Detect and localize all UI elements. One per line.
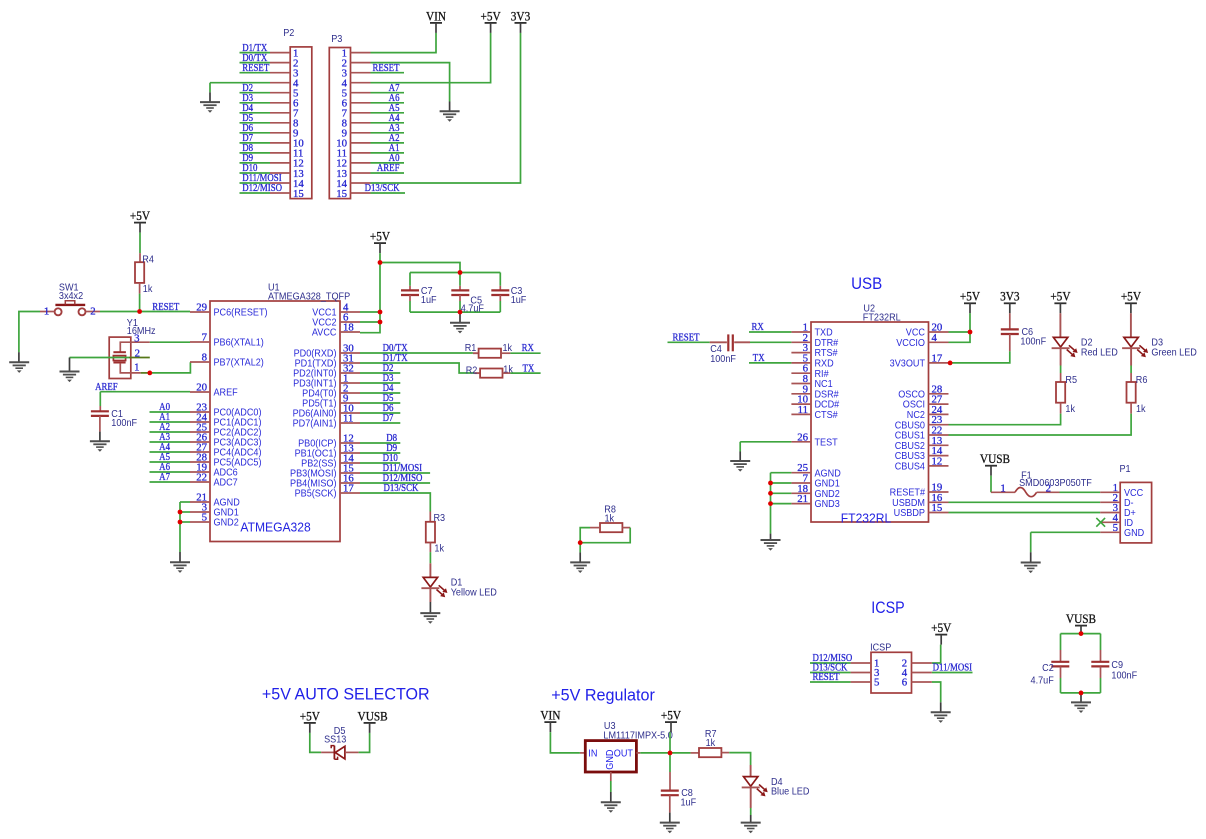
wire net D1/TX to P2.1 (240, 52, 271, 54)
wire net D12/MISO ICSP (810, 662, 851, 664)
svg-text:P3: P3 (331, 34, 342, 46)
wire XTAL1 to PB6 (150, 341, 190, 343)
pin stub C9 top (1100, 650, 1102, 662)
power 3V3 at C6 (1000, 289, 1020, 313)
svg-text:AREF: AREF (377, 162, 400, 174)
wire net A7 (150, 481, 191, 483)
wire AREF down to C1 (99, 392, 101, 406)
wire net D4 to P2.7 (240, 112, 271, 114)
wire D2 to R5 (1060, 366, 1062, 374)
ground stem TEST (739, 452, 741, 462)
svg-text:4: 4 (932, 332, 938, 344)
wire R8 left down (580, 528, 590, 543)
svg-text:1k: 1k (1065, 404, 1075, 416)
ground stem P1 (1030, 552, 1032, 562)
wire R7 to D4 (729, 753, 750, 765)
wire to C7 top (409, 273, 411, 286)
pin stub D1 anode (429, 563, 431, 577)
pin stub R3 top (429, 512, 431, 522)
svg-text:RESET: RESET (673, 332, 700, 344)
wire to C5 top (459, 273, 461, 286)
power 3V3 top (511, 9, 531, 33)
junction RESET node (137, 309, 142, 314)
svg-text:D12/MISO: D12/MISO (242, 182, 282, 194)
svg-text:P2: P2 (283, 28, 294, 40)
wire +5V to VCC (949, 331, 971, 333)
svg-text:18: 18 (343, 322, 354, 334)
wire net A6 (150, 471, 191, 473)
wire net A1 at P3.11 (371, 152, 405, 154)
svg-text:100nF: 100nF (710, 354, 736, 366)
svg-text:1: 1 (44, 305, 49, 317)
svg-text:RESET: RESET (242, 62, 269, 74)
wire net D10 to P2.13 (240, 172, 271, 174)
switch SW1 (40, 282, 100, 317)
svg-text:VIN: VIN (540, 708, 561, 723)
junction U2 GND1 (768, 481, 773, 486)
LED D3 Green (1122, 337, 1197, 358)
svg-text:1k: 1k (503, 364, 513, 376)
junction XTAL2 (147, 371, 152, 376)
svg-text:VCCIO: VCCIO (896, 338, 925, 350)
power VIN top (426, 9, 447, 33)
pin stub D4 cathode (750, 787, 752, 808)
ground symbol TEST (730, 461, 750, 472)
svg-text:29: 29 (196, 302, 207, 314)
pin stub C5 bottom (459, 295, 461, 301)
svg-text:3V3OUT: 3V3OUT (890, 358, 926, 370)
wire net D0/TX to P2.2 (240, 62, 271, 64)
svg-text:R5: R5 (1065, 375, 1077, 387)
power VIN regulator (540, 708, 561, 732)
pin stub D2 cathode (1060, 348, 1062, 365)
power +5V regulator out (661, 708, 682, 732)
wire net D11/MOSI to P2.14 (240, 182, 271, 184)
wire cap top rail (410, 272, 500, 274)
svg-text:TX: TX (753, 352, 765, 364)
ground symbol P2.4 (200, 102, 220, 113)
wire net D13/SCK at P3.15 (371, 192, 406, 194)
svg-text:VUSB: VUSB (1066, 612, 1096, 627)
resistor R7 (699, 729, 721, 758)
ground symbol D4 (741, 823, 761, 834)
ground stem Y1 (69, 358, 71, 372)
wire net D7 (360, 422, 400, 424)
pin stub R2 left (474, 372, 480, 374)
power +5V at ICSP (931, 621, 952, 645)
svg-text:R1: R1 (465, 343, 477, 355)
wire P2.4 to GND (210, 82, 270, 84)
svg-text:+5V AUTO SELECTOR: +5V AUTO SELECTOR (262, 684, 430, 704)
svg-text:FT232RL: FT232RL (863, 312, 901, 324)
wire to R7 (670, 752, 691, 754)
wire XTAL2 to PB7 (150, 362, 191, 373)
pin stub C6 bottom (1009, 334, 1011, 351)
wire net A5 (150, 461, 191, 463)
wire R8 right loop (580, 528, 630, 543)
wire net D3 (360, 382, 400, 384)
wire GND2 U2 (771, 492, 792, 494)
svg-text:PB6(XTAL1): PB6(XTAL1) (214, 337, 264, 349)
svg-text:RESET: RESET (372, 62, 399, 74)
capacitor C7 (401, 286, 437, 307)
wire net D10 (360, 462, 400, 464)
LED D4 Blue (742, 776, 810, 797)
ground stem caps (459, 312, 461, 323)
wire GND2 (180, 521, 190, 523)
svg-text:15: 15 (293, 188, 304, 200)
pin stub C8 top (669, 772, 671, 791)
wire P3.2 to GND (371, 63, 450, 102)
svg-text:2: 2 (135, 348, 140, 360)
wire AREF (100, 391, 190, 393)
wire +5V to VCCIO (949, 313, 971, 342)
svg-text:USBDP: USBDP (894, 508, 925, 520)
power +5V at R4 (130, 209, 151, 233)
wire net D13/SCK ICSP (810, 672, 851, 674)
pin stub C7 top (409, 286, 411, 291)
svg-text:CBUS4: CBUS4 (895, 461, 926, 473)
wire RESET to U1 (100, 311, 190, 313)
wire P3.1 to VIN (371, 33, 437, 53)
wire D3 to R6 (1130, 366, 1132, 374)
svg-text:12: 12 (932, 455, 943, 467)
svg-text:ATMEGA328: ATMEGA328 (240, 520, 310, 534)
ground stem D1 (429, 602, 431, 613)
wire P1 GND down (1030, 532, 1032, 552)
svg-text:5: 5 (202, 512, 207, 524)
svg-text:RX: RX (522, 342, 534, 354)
resistor R6 (1127, 375, 1148, 416)
wire RX to TXD (749, 331, 791, 333)
svg-text:D7: D7 (383, 412, 394, 424)
wire AGND (180, 501, 190, 503)
svg-text:IN: IN (588, 748, 597, 760)
wire R3 to D1 (429, 552, 431, 563)
connector P3 (329, 34, 370, 200)
wire net A3 (150, 441, 191, 443)
junction +5V rail top (378, 260, 383, 265)
ground stem U3 (610, 792, 612, 802)
wire net D4 (360, 392, 400, 394)
wire net D6 (360, 412, 400, 414)
ground stem SW1 (18, 352, 20, 362)
IC U1 ATMEGA328_TQFP (190, 282, 360, 541)
svg-text:22: 22 (196, 472, 207, 484)
ground stem U1 GND (179, 552, 181, 562)
svg-text:TX: TX (523, 363, 535, 375)
svg-text:1: 1 (1000, 482, 1005, 494)
svg-text:Blue LED: Blue LED (771, 786, 809, 798)
pin stub C2 top (1060, 650, 1062, 662)
svg-text:AVCC: AVCC (312, 327, 337, 339)
svg-text:ICSP: ICSP (871, 599, 904, 617)
wire to C2 top (1060, 634, 1062, 650)
wire net D12/MISO (360, 482, 430, 484)
svg-text:+5V: +5V (661, 708, 682, 723)
svg-text:100nF: 100nF (1020, 336, 1046, 348)
svg-text:TEST: TEST (815, 437, 838, 449)
wire +5V to cap rail (380, 263, 460, 273)
wire VIN to U3 (550, 732, 580, 753)
junction GND1 (178, 510, 183, 515)
svg-text:AREF: AREF (214, 387, 238, 399)
wire net D9 to P2.12 (240, 162, 271, 164)
ground stem C1 (99, 432, 101, 442)
svg-text:SS13: SS13 (324, 734, 346, 746)
wire C6 to 3V3OUT (950, 351, 1010, 363)
svg-text:Yellow LED: Yellow LED (451, 587, 497, 599)
svg-text:R4: R4 (142, 254, 154, 266)
capacitor C1 (91, 409, 137, 429)
wire C9 bottom (1100, 678, 1102, 693)
svg-text:OUT: OUT (614, 748, 633, 760)
wire Y1 pin2 to ground (70, 357, 130, 359)
junction VCC2 (378, 320, 383, 325)
ground stem C8 (669, 813, 671, 823)
resistor R2 (466, 364, 513, 377)
svg-text:GND: GND (605, 749, 617, 769)
svg-text:+5V: +5V (130, 209, 151, 224)
wire net D8 to P2.11 (240, 152, 271, 154)
wire to C9 top (1100, 634, 1102, 650)
junction cap gnd rail (458, 310, 463, 315)
wire net A0 (150, 411, 191, 413)
wire C2 C9 bottom rail (1061, 692, 1101, 694)
IC U2 FT232RL (791, 303, 948, 525)
wire +5V rail down to AVCC (360, 253, 380, 333)
svg-text:R2: R2 (466, 365, 478, 377)
svg-text:1k: 1k (1136, 404, 1146, 416)
ground symbol C1 (90, 441, 110, 452)
svg-text:C2: C2 (1042, 663, 1054, 675)
svg-text:VIN: VIN (426, 9, 447, 24)
wire net D3 to P2.6 (240, 102, 271, 104)
junction VUSB rail (1079, 631, 1084, 636)
ground symbol ICSP (931, 712, 951, 723)
junction U2 GND3 (768, 501, 773, 506)
ground symbol Y1 (60, 372, 80, 383)
pin stub R1 left (473, 352, 479, 354)
junction +5V out (668, 751, 673, 756)
junction GND2 (178, 520, 183, 525)
wire net D5 (360, 402, 400, 404)
svg-text:P1: P1 (1120, 464, 1131, 476)
resistor R5 (1056, 375, 1077, 416)
wire C3 to gnd rail (499, 301, 501, 312)
svg-text:PD7(AIN1): PD7(AIN1) (293, 418, 337, 430)
pin stub C5 top (459, 286, 461, 291)
svg-text:R6: R6 (1136, 375, 1148, 387)
svg-text:PB5(SCK): PB5(SCK) (295, 488, 337, 500)
wire net A1 (150, 421, 191, 423)
power +5V top (481, 9, 502, 33)
wire USBDM to P1 (949, 501, 1101, 503)
svg-text:USB: USB (851, 274, 882, 293)
ground stem U2 gnd (770, 534, 772, 540)
wire net D2 (360, 372, 400, 374)
wire P3.14 to 3V3 (371, 33, 521, 183)
wire +5V to D5 cathode (310, 733, 321, 753)
wire net A3 at P3.9 (371, 132, 405, 134)
junction R8 gnd (578, 540, 583, 545)
power +5V at D2 (1050, 289, 1071, 313)
svg-text:20: 20 (196, 382, 207, 394)
ground symbol R8 (570, 562, 590, 573)
wire TEST to gnd (740, 441, 791, 443)
wire F1 to P1 VCC (1060, 491, 1101, 493)
svg-text:RESET: RESET (813, 671, 840, 683)
svg-text:7: 7 (202, 332, 208, 344)
wire net D12/MISO to P2.15 (240, 192, 271, 194)
wire D5 anode to VUSB (359, 733, 370, 753)
pin stub R6 top (1130, 373, 1132, 382)
pin stub R6 bottom (1130, 403, 1132, 414)
svg-text:+5V: +5V (370, 229, 391, 244)
wire AGND (771, 472, 792, 474)
pin stub D2 anode (1059, 313, 1061, 337)
svg-text:5: 5 (1113, 522, 1118, 534)
wire net RESET to P2.3 (240, 72, 271, 74)
pin stub C1 top (99, 406, 101, 411)
wire VUSB to F1 (990, 476, 992, 493)
wire net D6 to P2.9 (240, 132, 271, 134)
pin stub C2 bottom (1060, 666, 1062, 678)
wire GND bus down (179, 502, 181, 552)
ground symbol C2 C9 (1071, 702, 1091, 713)
wire net RESET at P3.3 (371, 72, 405, 74)
pin stub R3 bottom (429, 543, 431, 553)
svg-text:D13/SCK: D13/SCK (384, 482, 420, 494)
svg-text:PB7(XTAL2): PB7(XTAL2) (214, 357, 264, 369)
regulator U3 LM1117 (580, 721, 673, 781)
svg-text:A7: A7 (159, 471, 170, 483)
wire USBDP to P1 (949, 512, 1101, 514)
wire C2 C9 top rail (1061, 633, 1101, 635)
wire RX (510, 352, 540, 354)
svg-text:3V3: 3V3 (511, 9, 531, 24)
resistor R4 (135, 254, 155, 295)
wire U3 GND (610, 781, 612, 792)
wire net A7 at P3.5 (371, 92, 405, 94)
wire net A2 (150, 431, 191, 433)
pin stub D3 anode (1130, 313, 1132, 337)
power +5V at U1 (370, 229, 391, 253)
wire net D5 to P2.8 (240, 122, 271, 124)
svg-text:+5V: +5V (1050, 289, 1071, 304)
svg-text:17: 17 (932, 352, 943, 364)
svg-text:1k: 1k (605, 513, 615, 525)
wire PB5 D13/SCK to R3 (360, 493, 430, 512)
wire GND1 U2 (771, 482, 792, 484)
no-connect X at P1 ID (1096, 518, 1105, 527)
wire P1 GND (1031, 531, 1101, 533)
pin stub R5 top (1060, 373, 1062, 382)
wire +5V to R4 (139, 233, 141, 254)
wire ICSP.6 to gnd (932, 682, 941, 702)
svg-text:3V3: 3V3 (1000, 289, 1020, 304)
ground stem D4 (750, 815, 752, 823)
svg-text:1uF: 1uF (511, 295, 527, 307)
wire GND1 (180, 511, 190, 513)
wire net D2 to P2.5 (240, 92, 271, 94)
svg-text:16MHz: 16MHz (127, 326, 156, 338)
ground stem C2 C9 (1080, 693, 1082, 703)
capacitor C4 (710, 334, 750, 365)
wire to VCC1 (360, 311, 380, 313)
svg-text:1uF: 1uF (681, 797, 697, 809)
junction VCC U2 (968, 330, 973, 335)
wire net AREF at P3.13 (371, 172, 405, 174)
svg-text:1k: 1k (143, 284, 153, 296)
junction VCC1 (378, 310, 383, 315)
svg-text:+5V: +5V (1121, 289, 1142, 304)
wire U3 OUT (640, 752, 670, 754)
wire R5 to CBUS0 (949, 414, 1061, 425)
wire net RESET ICSP (810, 681, 851, 683)
svg-text:SMD0603P050TF: SMD0603P050TF (1019, 478, 1092, 490)
wire net A4 at P3.8 (371, 122, 405, 124)
svg-text:1: 1 (134, 362, 139, 374)
wire net A0 at P3.12 (371, 162, 405, 164)
capacitor C5 (451, 290, 484, 314)
wire SW1 to ground (19, 312, 40, 353)
ground at P2.4 (209, 92, 211, 102)
svg-text:100nF: 100nF (111, 418, 137, 430)
power +5V at D3 (1121, 289, 1142, 313)
pin stub R8 right (622, 527, 630, 529)
svg-text:2: 2 (90, 305, 95, 317)
pin stub R5 bottom (1060, 403, 1062, 414)
wire C4 to DTR (750, 341, 791, 343)
pin stub D4 anode (750, 765, 752, 777)
svg-text:3: 3 (134, 333, 139, 345)
wire TX to RXD (749, 362, 791, 364)
wire to VCC2 (360, 321, 380, 323)
svg-text:11: 11 (343, 413, 353, 425)
svg-text:AREF: AREF (95, 381, 118, 393)
svg-text:15: 15 (336, 188, 347, 200)
svg-text:+5V: +5V (300, 709, 321, 724)
pin stub R1 right (501, 352, 510, 354)
svg-text:1uF: 1uF (421, 295, 437, 307)
svg-text:+5V Regulator: +5V Regulator (551, 685, 655, 704)
pin stub R2 right (503, 372, 511, 374)
connector P2 (270, 28, 312, 200)
power VUSB selector (358, 709, 388, 733)
svg-text:+5V: +5V (960, 289, 981, 304)
svg-text:GND3: GND3 (815, 499, 840, 511)
power VUSB at C2 (1066, 612, 1096, 634)
wire net D7 to P2.10 (240, 142, 271, 144)
svg-text:RX: RX (752, 321, 764, 333)
svg-text:8: 8 (202, 352, 207, 364)
svg-text:LM1117IMPX-5.0: LM1117IMPX-5.0 (603, 730, 672, 742)
svg-text:FT232RL: FT232RL (841, 511, 892, 525)
capacitor C9 (1091, 660, 1137, 682)
LED D1 Yellow (421, 577, 497, 598)
resistor R8 (600, 504, 622, 532)
pin stub C8 bottom (669, 795, 671, 812)
wire TX (510, 372, 540, 374)
wire +5V down to junction (669, 732, 671, 753)
wire U2 gnd bus (770, 473, 772, 534)
wire net D11/MOSI (360, 472, 430, 474)
wire ICSP.4 D11/MOSI (932, 672, 973, 674)
crystal Y1 (109, 317, 156, 378)
wire R4 to RESET net (139, 294, 141, 312)
svg-text:21: 21 (797, 493, 808, 505)
